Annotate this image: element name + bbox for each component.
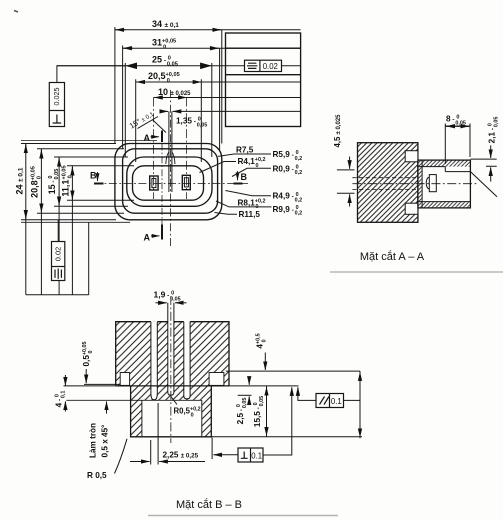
dim 15 line	[58, 157, 60, 295]
BB left notch white	[120, 373, 129, 386]
BB mid slot	[168, 322, 174, 396]
svg-text:0.02: 0.02	[53, 247, 62, 261]
ext line C4 top	[67, 165, 134, 167]
AA plug body	[429, 175, 436, 192]
ext line C2 bottom	[37, 212, 124, 214]
dim 8 line	[445, 125, 470, 127]
symm symbol	[247, 63, 257, 68]
AA sleeve bottom wall hatch	[418, 202, 471, 208]
ext line C3 bottom	[54, 205, 128, 207]
dim 25 ext	[125, 63, 212, 157]
dim 24 line	[25, 144, 27, 295]
svg-text:0.02: 0.02	[263, 62, 278, 71]
AA sleeve top wall hatch	[418, 160, 471, 167]
dim 34 ext lines	[114, 27, 116, 144]
svg-text:R7,5: R7,5	[236, 146, 254, 155]
dim 2.5 arrows	[248, 378, 250, 385]
frame perp 0.1 box	[238, 448, 263, 462]
svg-text:A: A	[144, 233, 151, 243]
svg-text:2,25 ± 0,25: 2,25 ± 0,25	[163, 451, 199, 460]
dim 34 line	[115, 29, 301, 31]
AA plug dome	[426, 177, 429, 189]
plan contour C3	[127, 157, 212, 206]
BB cavity walls	[142, 400, 202, 437]
dim 1.9 ext	[168, 303, 174, 322]
dim 20.5 ext	[136, 79, 202, 162]
dim 2.25 ext	[151, 403, 158, 465]
svg-text:B: B	[241, 172, 248, 182]
ext line foot right face	[211, 438, 213, 460]
BB bottom ext	[211, 436, 362, 438]
BB left ext lines	[64, 385, 116, 387]
plan contour C4	[133, 166, 204, 200]
BB block bottom line	[116, 385, 229, 387]
PLAN-VIEW	[90, 30, 301, 247]
frame perp 0.1 leader	[263, 387, 292, 455]
right slot centerline	[186, 98, 188, 200]
plan left slot outer	[150, 176, 158, 190]
section B right tick	[234, 183, 243, 185]
ext line C1 bottom	[21, 219, 116, 221]
frame perp 0.025 box	[49, 83, 64, 127]
scan streak bottom	[148, 515, 338, 517]
echo line above C1 top	[21, 140, 157, 142]
dim 4+0.5 arrow	[264, 353, 266, 371]
dim 10 line	[154, 97, 301, 99]
perp symbol	[241, 452, 248, 459]
RADIUS-LABELS	[200, 146, 303, 220]
dim 1.9 arrows	[156, 302, 167, 304]
plan right arm rectangle	[226, 33, 301, 127]
section A top arrow	[151, 136, 160, 138]
BB right notch white	[209, 373, 224, 386]
scan streak under caption A-A	[330, 271, 503, 273]
dim 31 ext	[122, 46, 124, 149]
svg-text:0.1: 0.1	[251, 451, 262, 460]
leader R7.5 / R5.9	[218, 154, 271, 156]
AA hidden slot dashed lines	[352, 178, 418, 190]
dim 2.1 ext	[471, 159, 497, 166]
ext line C2 top	[37, 148, 124, 150]
ext line C3 top	[54, 156, 128, 158]
plan contour C2	[123, 149, 218, 213]
frame parallel 0.1 box	[316, 394, 344, 408]
dim 1.35 line right	[173, 110, 301, 112]
frame parallel leaders	[298, 387, 360, 400]
AA notch top-right	[405, 151, 418, 162]
section A top tick	[161, 131, 163, 143]
frame perp 0.1 left leader	[213, 454, 237, 456]
dim 0.5 arrow	[85, 369, 87, 383]
left slot centerline	[153, 98, 155, 200]
svg-text:R 0,5: R 0,5	[87, 471, 107, 480]
AA centerline	[352, 183, 478, 185]
dim 2.1 arrows	[490, 145, 492, 158]
svg-text:B: B	[90, 171, 97, 181]
AA sleeve left wall hatch	[418, 167, 422, 202]
section A bottom tick	[161, 225, 163, 240]
plan center narrow slot left edge	[168, 111, 170, 192]
BB 0.5 step line	[84, 383, 120, 385]
arm inner line y48	[226, 47, 301, 49]
dim 0.5 counter arrow	[106, 402, 108, 414]
scan speck top-left	[14, 11, 18, 13]
svg-text:Mặt cắt B – B: Mặt cắt B – B	[176, 498, 242, 511]
AA notch bottom-right	[405, 203, 418, 214]
dim 15.5 line	[266, 386, 268, 437]
leader R8.1 / R9.9	[216, 201, 272, 207]
dim 4.5 ticks	[337, 170, 355, 193]
plan outer contour C1	[115, 144, 222, 220]
BB main block hatched	[116, 322, 229, 386]
frame symm left leader	[57, 220, 59, 242]
BB foot right wall hatched	[202, 386, 212, 437]
BB right ref line y386	[229, 385, 299, 387]
arm inner line y74.7	[226, 74, 301, 76]
dim 4-0.1 arrows	[64, 375, 66, 386]
svg-text:R11,5: R11,5	[239, 210, 261, 219]
frame symm 0.02 top box	[245, 60, 282, 71]
LEFT-DIMS	[15, 141, 158, 295]
plan center narrow slot right edge	[171, 111, 173, 192]
BB foot outline	[131, 386, 212, 437]
plan left slot inner	[152, 178, 156, 187]
dim 11.1 line	[71, 166, 73, 295]
dim 20.8 line	[40, 149, 42, 295]
leader R11.5	[215, 213, 238, 215]
svg-text:0.025: 0.025	[52, 88, 61, 106]
horizontal centerline / section B cut	[94, 183, 248, 185]
svg-text:0,5 x 45°: 0,5 x 45°	[101, 425, 110, 458]
leader R0.5 foot	[115, 439, 128, 474]
AA diagonal leader	[470, 172, 497, 197]
section B left tick	[94, 183, 104, 185]
SECTION-BB	[55, 290, 363, 512]
dim 20.5 line	[136, 81, 301, 83]
angle 15 label	[128, 109, 156, 131]
plan center slot flare	[166, 152, 175, 164]
dim 25 big arrows	[125, 63, 137, 70]
plan right slot inner	[184, 178, 188, 187]
dim 2.5 ext tick	[238, 394, 252, 396]
AA sleeve inner lines	[418, 160, 471, 208]
TOP-DIMS	[49, 19, 300, 162]
BB left slot	[151, 322, 157, 400]
echo line below C1 bottom	[21, 221, 130, 223]
ext line C1 top	[21, 143, 116, 145]
BB right tall dim	[359, 371, 361, 438]
arm ext verticals	[220, 30, 222, 150]
BB cavity ceiling	[66, 399, 202, 401]
BB centerline	[170, 296, 172, 443]
dim 31 line	[123, 47, 301, 49]
BB right slot	[184, 322, 190, 399]
frame symm 0.02 left box	[52, 242, 65, 281]
frame perp leader	[57, 66, 125, 83]
section B left marker arrow	[97, 172, 99, 181]
vertical centerline	[169, 90, 171, 247]
section B right marker arrow	[237, 171, 239, 180]
BB mid zone hatched	[142, 386, 202, 400]
leader R4.9	[226, 191, 272, 196]
AA main block hatched	[358, 143, 418, 223]
svg-text:Làm tròn: Làm tròn	[89, 423, 98, 458]
angle 15 leader	[138, 117, 167, 133]
AA sleeve outline	[418, 160, 471, 208]
leader R0.9	[232, 168, 271, 176]
dim 1.35 line left	[160, 110, 169, 112]
parallel symbol	[320, 397, 330, 405]
aux vertical x88.7	[88, 222, 90, 295]
dim 25 line	[57, 65, 301, 67]
leader R4.1	[200, 162, 237, 173]
leader R0.5 slot	[171, 397, 177, 405]
svg-text:A: A	[144, 133, 151, 143]
symm symbol rotated	[55, 269, 61, 279]
SECTION-AA	[333, 114, 499, 263]
BB right ref line y371	[226, 370, 360, 372]
svg-text:Mặt cắt A – A: Mặt cắt A – A	[360, 250, 425, 263]
comb bottom line	[26, 294, 89, 296]
plan right slot outer	[182, 175, 190, 189]
dim 4.5 arrows	[349, 157, 351, 169]
section A cut line	[161, 131, 163, 240]
perp symbol	[53, 115, 62, 124]
dim 2.25 arrows	[130, 461, 150, 463]
dim 8 ext	[445, 124, 470, 165]
svg-text:0.1: 0.1	[331, 397, 342, 406]
section A bottom arrow	[151, 235, 160, 237]
ext line C4 bottom	[67, 199, 134, 201]
BB foot left wall hatched	[131, 386, 142, 437]
BB block outline	[116, 322, 229, 386]
